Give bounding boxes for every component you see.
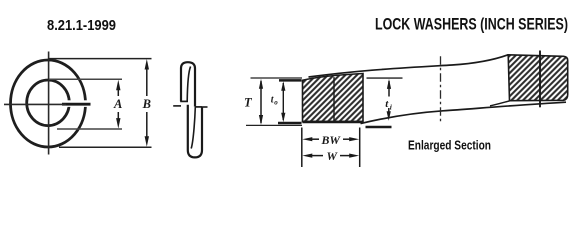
enlarged section: hatch divider line [333,77,335,122]
enlarged section: T bottom extension line [246,124,302,126]
svg-text:A: A [113,97,122,111]
svg-text:LOCK WASHERS (INCH SERIES): LOCK WASHERS (INCH SERIES) [375,16,568,34]
enlarged section: to top reference bar [279,79,302,82]
enlarged section: thick bottom edge of section [303,121,364,124]
split gap white-out [65,100,91,107]
dimension B top extension line [48,58,152,60]
dimension B bottom extension line [59,146,152,148]
vertical line through right section [539,51,541,108]
section centerline (dash-dot) [440,56,442,123]
BW/W right extension line [359,128,361,168]
side view: upper half inner edge [187,67,190,102]
vertical centerline [48,52,50,155]
side view: upper half outline [181,62,195,106]
svg-text:Enlarged Section: Enlarged Section [408,139,491,153]
washer front view: outer circle [11,60,86,147]
washer front view: inner circle (hole) [27,80,70,126]
dimension ti line with arrows [388,81,390,97]
dimension A line with arrows [117,87,119,96]
svg-text:BW: BW [321,133,342,147]
side view: upper end face [180,100,188,102]
BW/W left extension line [301,128,303,168]
enlarged section: to bottom reference bar [278,122,302,125]
side view: right tick at split [201,106,207,108]
enlarged section: right hatched cross-section [508,55,568,101]
enlarged section: left hatched cross-section [303,74,364,122]
dimension W arrows [302,154,312,158]
svg-text:8.21.1-1999: 8.21.1-1999 [47,17,116,34]
dimension BW arrows [302,137,312,141]
split line (cut through washer) [62,103,91,106]
dimension T line with arrows [260,81,262,123]
svg-text:W: W [327,149,339,163]
dimension B line with arrows [146,66,148,96]
enlarged section: T top extension line [251,77,303,79]
svg-text:o: o [274,99,278,107]
side view: lower end face [195,106,202,108]
side view: left tick at split [173,105,181,107]
washer profile top curve [309,55,509,77]
ti bottom reference bar [366,126,392,129]
washer profile bottom curve [361,102,567,123]
dimension ti top extension line [367,77,403,79]
wedge line under right section [490,101,510,106]
horizontal centerline [4,103,66,105]
dimension A bottom extension line [57,128,122,130]
dimension to line with arrows [282,83,284,120]
side view: lower half inner edge [191,107,195,149]
svg-text:B: B [142,97,151,111]
dimension A top extension line [49,78,122,80]
side view: lower half outline [188,105,202,158]
